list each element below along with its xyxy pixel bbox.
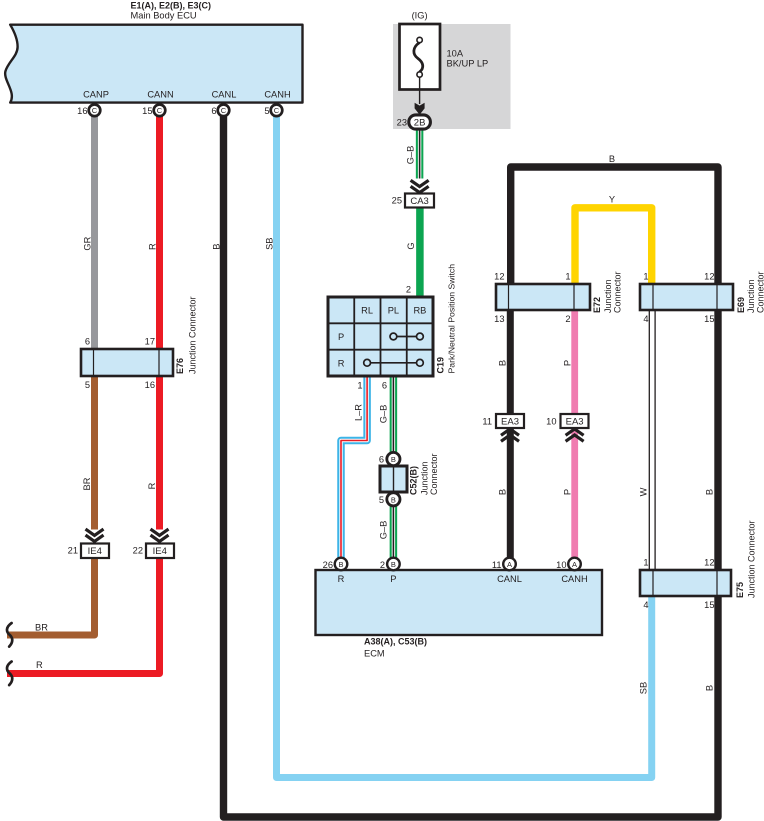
wire R red (CANN to E76 pin 17) [156,112,163,352]
E75 name label [735,520,757,598]
wire GR (CANP to E76 pin 6) [91,112,98,352]
svg-text:CANP: CANP [83,90,109,100]
wire label G-B (fuse wire) [406,146,416,165]
svg-text:Connector: Connector [755,271,764,313]
svg-text:P: P [390,574,396,584]
svg-text:CANL: CANL [497,574,522,584]
svg-text:17: 17 [145,337,155,347]
ECU pin circle C (CANH) [271,105,283,117]
wire label B [212,243,222,249]
svg-text:2: 2 [380,560,385,570]
E69 name label [736,271,764,313]
svg-text:EA3: EA3 [566,417,584,428]
switch pin 2 label [406,285,411,295]
EA3 connector 11 [482,414,524,428]
ECU pin circle C (CANN) [154,105,166,117]
svg-text:B: B [338,560,343,569]
wire BR brown (below IE4 21 to left squiggle) [7,556,95,635]
wire B black (E72 pin 13 through EA3 11 to ECM CANL) [507,308,514,560]
E76 name label [175,296,198,374]
svg-text:12: 12 [494,272,504,282]
svg-text:PL: PL [388,306,399,316]
svg-text:12: 12 [704,272,714,282]
svg-text:6: 6 [85,337,90,347]
svg-text:IE4: IE4 [153,546,167,557]
wire G-B green/black (switch pin 6 through C52 to ECM pin 2) [390,374,398,560]
svg-text:RB: RB [413,306,426,316]
svg-text:1: 1 [357,381,362,391]
svg-text:A: A [507,560,512,569]
wire label R (horizontal) [36,660,43,670]
svg-text:EA3: EA3 [501,417,519,428]
wire G-B green/black (2B to CA3) [416,126,424,179]
wire label B (right side) [705,489,715,495]
svg-text:(IG): (IG) [412,11,428,21]
wire label BR (vertical) [82,477,92,490]
wire label BR (horizontal) [35,623,48,633]
connector 2B oval [397,115,431,129]
svg-text:C: C [221,106,227,115]
svg-text:E69: E69 [736,297,746,313]
svg-text:B: B [705,685,715,691]
svg-text:IE4: IE4 [88,546,102,557]
wire P pink (E72 pin 2 through EA3 10 to ECM CANH) [571,308,578,560]
svg-text:13: 13 [494,314,504,324]
svg-text:10: 10 [546,417,556,427]
R squiggle break [7,662,12,686]
ECM box [316,570,603,635]
svg-text:Junction: Junction [603,279,613,313]
svg-text:BR: BR [35,623,48,633]
svg-text:11: 11 [492,560,502,570]
C52 name label [409,453,440,495]
svg-text:B: B [498,360,508,366]
svg-text:GR: GR [83,236,93,250]
wire label SB (bottom) [639,682,649,694]
ECM pin labels [338,574,588,584]
wire L-R blue/red (switch pin 1 to ECM pin 26) [341,374,367,560]
EA3 connector 10 chevrons [566,429,584,441]
E76 pin numbers [85,337,155,391]
wire label R (vertical) [147,482,157,489]
svg-text:4: 4 [643,314,648,324]
wire W white (E69 pin 4 to E75 pin 1) [649,308,655,572]
ECM pin circle B (2) [387,558,400,571]
wire label G-B (above C52) [379,405,389,424]
svg-text:Main Body ECU: Main Body ECU [131,11,197,21]
svg-text:E1(A), E2(B), E3(C): E1(A), E2(B), E3(C) [131,1,212,11]
svg-text:10A: 10A [447,49,464,59]
E69 pin numbers [643,272,714,325]
wire G green (CA3 to switch pin 2) [416,206,424,299]
ECM pin circle B (26) [335,558,348,571]
svg-text:Junction Connector: Junction Connector [188,296,198,374]
svg-text:BK/UP LP: BK/UP LP [447,59,489,69]
ECU pin circle C (CANL) [218,105,230,117]
IE4 connector 22 [133,544,174,559]
svg-text:25: 25 [392,196,402,206]
C52 pin circle B (6) [379,452,400,465]
svg-text:R: R [36,660,43,670]
svg-text:Junction Connector: Junction Connector [747,520,757,598]
wire label W [639,487,649,496]
svg-text:Connector: Connector [429,453,439,495]
wire label P (EA3 to ECM) [563,489,573,495]
svg-text:CANH: CANH [264,90,290,100]
switch name label C19 [436,264,457,374]
fuse label 10A BK/UP LP [447,49,489,69]
svg-text:Y: Y [609,195,615,205]
svg-text:11: 11 [482,417,492,427]
svg-text:CANL: CANL [212,90,237,100]
ECM name label [364,637,427,659]
svg-text:B: B [498,489,508,495]
svg-text:B: B [391,495,396,504]
svg-text:C: C [92,106,98,115]
wire R red (E76 pin 16 to IE4 22) [156,374,163,530]
wire label R [148,243,158,250]
E75 junction connector bar [640,570,731,596]
svg-text:15: 15 [704,600,714,610]
svg-text:R: R [338,574,345,584]
ECM pin circle A (10) [568,558,581,571]
svg-text:A: A [572,560,577,569]
svg-text:5: 5 [379,495,384,505]
fuse block gray background [393,24,511,129]
svg-text:B: B [391,455,396,464]
ECU pin circle C (CANP) [89,105,101,117]
ECU pin labels CANP CANN CANL CANH [83,90,291,100]
wire label B (top loop) [609,154,615,164]
svg-text:R: R [338,358,345,368]
svg-text:26: 26 [323,560,333,570]
svg-text:C52(B): C52(B) [409,466,419,495]
svg-text:Junction: Junction [420,461,430,495]
svg-text:A38(A), C53(B): A38(A), C53(B) [364,637,427,647]
ECM pin numbers [323,560,567,570]
svg-text:RL: RL [361,306,373,316]
svg-text:22: 22 [133,546,143,556]
svg-text:ECM: ECM [364,649,385,659]
svg-text:12: 12 [704,558,714,568]
main body ECU header labels [131,1,212,21]
svg-text:15: 15 [704,314,714,324]
park/neutral position switch C19 grid [328,297,433,376]
svg-text:E72: E72 [592,297,602,313]
svg-text:B: B [705,489,715,495]
svg-text:R: R [147,482,157,489]
svg-text:5: 5 [264,106,269,116]
E72 name label [592,271,623,313]
switch grid cell labels [338,306,427,369]
svg-text:10: 10 [556,560,566,570]
wire label P (E72 to EA3) [563,360,573,366]
fuse to 2B thin wire [419,77,421,104]
svg-text:B: B [212,243,222,249]
BR squiggle break [7,623,12,647]
wire label G [406,242,416,249]
svg-text:P: P [563,360,573,366]
svg-text:G–B: G–B [379,521,389,540]
svg-text:E75: E75 [735,582,745,598]
svg-text:R: R [148,243,158,250]
wire B black main loop (CANL down, bottom, right side, top, to E72 pin 12) [224,112,719,817]
wire label B (bottom right) [705,685,715,691]
E69 junction connector bar [640,284,733,310]
svg-text:P: P [563,489,573,495]
switch contact row R (RL-RB) [364,359,424,366]
C52(B) junction connector box [380,466,407,492]
E76 junction connector bar [81,349,173,376]
svg-text:23: 23 [397,118,407,128]
svg-text:1: 1 [643,558,648,568]
fuse label (IG) [412,11,428,21]
svg-text:16: 16 [77,106,87,116]
svg-text:2: 2 [406,285,411,295]
svg-text:5: 5 [85,380,90,390]
svg-text:6: 6 [211,106,216,116]
svg-text:L–R: L–R [354,404,364,421]
CA3 chevrons [411,180,429,192]
svg-text:6: 6 [382,381,387,391]
wire label L-R [354,404,364,421]
svg-text:P: P [338,332,344,342]
wire label GR [83,236,93,250]
E72 pin numbers [494,272,570,325]
ECM pin circle A (11) [503,558,516,571]
svg-text:4: 4 [643,600,648,610]
svg-text:B: B [391,560,396,569]
svg-text:E76: E76 [175,358,185,374]
IE4 connector 21 chevrons [86,529,104,541]
svg-text:1: 1 [565,272,570,282]
E72 junction connector bar [496,284,590,310]
solid arrow into 2B [415,103,425,115]
svg-text:2B: 2B [414,118,426,129]
wire label Y [609,195,615,205]
svg-text:CA3: CA3 [410,196,428,207]
switch bottom pin numbers [357,381,387,391]
wire label G-B (below C52) [379,521,389,540]
svg-text:21: 21 [68,546,78,556]
main body ECU box [5,25,302,103]
svg-text:C: C [157,106,163,115]
IE4 connector 22 chevrons [151,529,169,541]
wire label B (EA3 to ECM) [498,489,508,495]
svg-text:G–B: G–B [379,405,389,424]
C52 pin circle B (5) [379,493,400,506]
svg-text:CANN: CANN [147,90,173,100]
svg-text:G–B: G–B [406,146,416,165]
svg-text:Connector: Connector [613,271,623,313]
svg-text:SB: SB [265,237,275,249]
wire BR brown (E76 pin 5 to IE4 21) [91,374,98,530]
svg-text:G: G [406,242,416,249]
svg-text:BR: BR [82,477,92,490]
IE4 connector 21 [68,544,109,559]
svg-text:1: 1 [643,272,648,282]
EA3 connector 11 chevrons [501,429,519,441]
E75 pin numbers [643,558,714,611]
svg-text:2: 2 [565,314,570,324]
svg-text:Park/Neutral Position Switch: Park/Neutral Position Switch [447,264,457,374]
svg-text:6: 6 [379,455,384,465]
ECU pin numbers [77,106,269,116]
wire Y yellow (E72 pin 1 to E69 pin 1) [575,208,652,286]
wire SB (CANH down, bottom, up to E75 pin 4) [277,112,652,778]
EA3 connector 10 [546,414,588,428]
wire R red (below IE4 22 to left squiggle) [7,556,160,674]
svg-text:W: W [639,487,649,496]
switch contact row P (PL-RB) [390,333,423,340]
svg-text:C: C [274,106,280,115]
connector CA3 [392,194,434,208]
svg-text:C19: C19 [436,357,446,374]
svg-text:SB: SB [639,682,649,694]
wire label SB [265,237,275,249]
svg-text:16: 16 [145,380,155,390]
svg-text:15: 15 [142,106,152,116]
fuse box 10A BK/UP LP [400,24,441,90]
svg-text:CANH: CANH [561,574,587,584]
wire label B (E72 to EA3) [498,360,508,366]
svg-text:B: B [609,154,615,164]
